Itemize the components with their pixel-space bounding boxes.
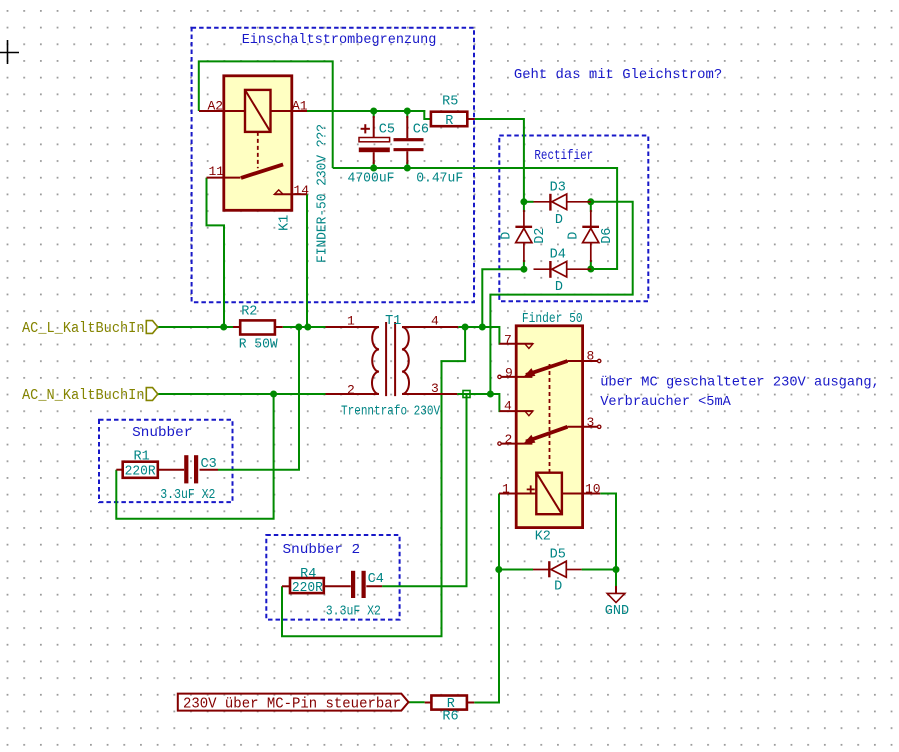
junction T1p3 x node B drop xyxy=(487,391,494,398)
wire T1 pin3 to junction xyxy=(457,393,490,395)
svg-text:Snubber: Snubber xyxy=(132,425,192,441)
svg-text:R5: R5 xyxy=(442,95,458,110)
svg-text:230V über MC-Pin steuerbar: 230V über MC-Pin steuerbar xyxy=(183,696,401,713)
svg-text:R2: R2 xyxy=(241,305,257,320)
resistor R2 xyxy=(233,320,283,334)
junction C6 bottom xyxy=(404,165,411,172)
svg-text:Verbraucher <5mA: Verbraucher <5mA xyxy=(600,394,731,410)
junction AC_L x C3 riser xyxy=(295,324,302,331)
diode D5 xyxy=(533,561,582,577)
dashed group box Snubber 2 xyxy=(266,535,399,620)
wire AC_L label to R2 xyxy=(158,326,233,328)
svg-text:R6: R6 xyxy=(442,709,458,724)
wire K2 pin1 drop to R6 xyxy=(474,494,499,703)
svg-text:3.3uF X2: 3.3uF X2 xyxy=(160,488,215,503)
junction AC_L x pin11 xyxy=(220,324,227,331)
svg-text:D: D xyxy=(555,280,563,295)
wire C6 bottom stub xyxy=(406,162,408,168)
wire A1 to R5 jog xyxy=(307,111,431,119)
diode D6 xyxy=(582,210,599,262)
svg-text:8: 8 xyxy=(587,349,595,364)
capacitor C5 xyxy=(359,116,390,164)
wire node A to D2 stub xyxy=(523,202,525,212)
svg-text:11: 11 xyxy=(209,164,225,179)
svg-text:3.3uF X2: 3.3uF X2 xyxy=(326,605,381,620)
svg-text:4: 4 xyxy=(431,313,439,328)
wire capacitors bottom rail to rectifier node D xyxy=(333,168,617,269)
junction AC_L x pin14 xyxy=(304,324,311,331)
svg-text:T1: T1 xyxy=(385,314,401,329)
capacitor C4 xyxy=(351,571,366,598)
wire node B to D6 stub xyxy=(590,202,592,212)
svg-text:2: 2 xyxy=(505,432,513,447)
svg-text:R 50W: R 50W xyxy=(239,338,279,353)
svg-text:D: D xyxy=(500,232,515,240)
svg-text:R4: R4 xyxy=(300,567,316,582)
wire K2 pin10 to GND drop xyxy=(600,494,616,570)
junction D5 left xyxy=(495,566,502,573)
svg-text:10: 10 xyxy=(585,482,601,497)
svg-text:D5: D5 xyxy=(550,547,566,562)
transformer T1 xyxy=(326,322,459,396)
junction T1p4 x snubber2 leg xyxy=(462,324,469,331)
wire node C to T1 pin4 rail xyxy=(482,269,524,327)
hierarchical label AC_N_KaltBuchIn shape xyxy=(146,388,158,401)
svg-text:2: 2 xyxy=(347,382,355,397)
svg-text:D2: D2 xyxy=(533,228,548,244)
wire node A to D3 stub xyxy=(524,201,534,203)
junction node B xyxy=(587,198,594,205)
junction C6 top xyxy=(404,108,411,115)
junction node A xyxy=(520,198,527,205)
wire C3 riser to AC_L rail xyxy=(218,327,299,470)
junction D5 right xyxy=(613,566,620,573)
wire C6 top stub xyxy=(406,111,408,118)
diode D2 xyxy=(515,210,532,262)
junction node C xyxy=(520,266,527,273)
wire K1 pin14 drop to AC_L rail xyxy=(306,194,308,327)
svg-text:7: 7 xyxy=(504,332,512,347)
wire-end square marker xyxy=(463,391,470,398)
diode D3 xyxy=(534,194,591,211)
wire top loop from A2 over K1 xyxy=(199,61,333,168)
svg-text:A1: A1 xyxy=(292,98,308,113)
svg-text:4700uF: 4700uF xyxy=(348,172,395,187)
wire D6 bottom stub to node D xyxy=(590,260,592,269)
svg-text:K1: K1 xyxy=(277,215,292,231)
svg-text:D: D xyxy=(567,232,582,240)
resistor R1 xyxy=(116,462,184,478)
capacitor C3 xyxy=(184,455,198,483)
wire GND stub xyxy=(615,570,617,587)
wire node B loop to K2 pin4 drop xyxy=(490,202,632,394)
svg-text:3: 3 xyxy=(587,415,595,430)
wire R5 output down to node A xyxy=(475,119,524,202)
K2 arm2 arrowhead xyxy=(523,435,536,445)
svg-text:über MC geschalteter 230V ausg: über MC geschalteter 230V ausgang, xyxy=(600,375,880,391)
resistor R5 xyxy=(431,112,475,127)
wire D5 right stub xyxy=(582,569,616,571)
junction AC_N x snubber1 leg xyxy=(270,391,277,398)
svg-text:D: D xyxy=(555,213,563,228)
svg-text:R1: R1 xyxy=(134,449,150,464)
dashed group box Rectifier xyxy=(499,136,648,302)
svg-text:Einschaltstrombegrenzung: Einschaltstrombegrenzung xyxy=(242,32,437,48)
svg-text:D3: D3 xyxy=(550,181,566,196)
svg-text:220R: 220R xyxy=(125,464,156,479)
junction T1p4 x node C riser xyxy=(479,324,486,331)
svg-text:4: 4 xyxy=(504,399,512,414)
svg-text:C3: C3 xyxy=(201,457,217,472)
svg-text:AC_N_KaltBuchIn: AC_N_KaltBuchIn xyxy=(22,387,145,404)
svg-text:A2: A2 xyxy=(208,98,224,113)
svg-text:D6: D6 xyxy=(600,228,615,244)
label 230V ueber MC-Pin steuerbar outline xyxy=(178,694,409,711)
svg-text:1: 1 xyxy=(347,313,355,328)
relay K1 xyxy=(199,76,307,211)
svg-text:AC_L_KaltBuchIn: AC_L_KaltBuchIn xyxy=(22,320,145,337)
svg-text:Snubber 2: Snubber 2 xyxy=(283,542,361,558)
svg-text:C6: C6 xyxy=(413,122,429,137)
svg-text:D4: D4 xyxy=(550,248,566,263)
resistor R6 xyxy=(425,696,475,710)
svg-text:C5: C5 xyxy=(379,122,395,137)
svg-text:FINDER-50 230V ???: FINDER-50 230V ??? xyxy=(316,124,331,263)
wire junction to K2 pin4 jog xyxy=(490,394,500,411)
svg-text:3: 3 xyxy=(431,381,439,396)
resistor R4 xyxy=(282,578,351,593)
dashed group box Snubber xyxy=(99,420,233,502)
svg-text:D: D xyxy=(554,579,562,594)
svg-text:14: 14 xyxy=(294,183,310,198)
svg-text:0.47uF: 0.47uF xyxy=(416,172,463,187)
svg-text:1: 1 xyxy=(502,482,510,497)
hierarchical label AC_L_KaltBuchIn shape xyxy=(146,321,158,334)
wire C5 top stub xyxy=(373,111,375,118)
wire label 230V to R6 xyxy=(409,701,425,703)
svg-text:R: R xyxy=(445,114,453,129)
svg-text:9: 9 xyxy=(505,365,513,380)
wire T1 pin4 to K2 pin7 xyxy=(458,327,500,344)
wire C5 bottom stub xyxy=(373,162,375,168)
svg-text:K2: K2 xyxy=(535,529,551,544)
wire D5 left stub xyxy=(499,569,533,571)
sheet origin crosshair xyxy=(0,40,19,64)
junction C5 top xyxy=(370,108,377,115)
wire snubber1 left leg xyxy=(116,394,273,519)
svg-text:Rectifier: Rectifier xyxy=(534,148,593,164)
svg-text:Trenntrafo 230V: Trenntrafo 230V xyxy=(341,405,441,420)
wire AC_N label to T1 pin2 xyxy=(158,393,325,395)
diode D4 xyxy=(534,261,591,278)
junction node D xyxy=(587,266,594,273)
svg-text:220R: 220R xyxy=(292,581,323,596)
dashed group box Einschaltstrombegrenzung xyxy=(192,28,474,303)
svg-text:C4: C4 xyxy=(368,572,384,587)
wire D2 bottom stub to node C xyxy=(523,260,525,269)
svg-text:GND: GND xyxy=(605,604,629,619)
wire R2 to T1 pin1 xyxy=(283,326,326,328)
ground GND xyxy=(607,586,625,603)
svg-text:Geht das mit Gleichstrom?: Geht das mit Gleichstrom? xyxy=(514,67,722,83)
K2 arm1 arrowhead xyxy=(523,368,536,378)
capacitor C6 xyxy=(394,116,424,164)
wire K1 pin11 drop to AC_L rail xyxy=(207,178,225,327)
wire C4 riser xyxy=(382,394,466,586)
svg-text:Finder 50: Finder 50 xyxy=(522,312,583,327)
junction C5 bottom xyxy=(370,165,377,172)
wire snubber2 left leg from T1 pin4 rail xyxy=(282,327,465,636)
relay K2 xyxy=(498,326,601,528)
